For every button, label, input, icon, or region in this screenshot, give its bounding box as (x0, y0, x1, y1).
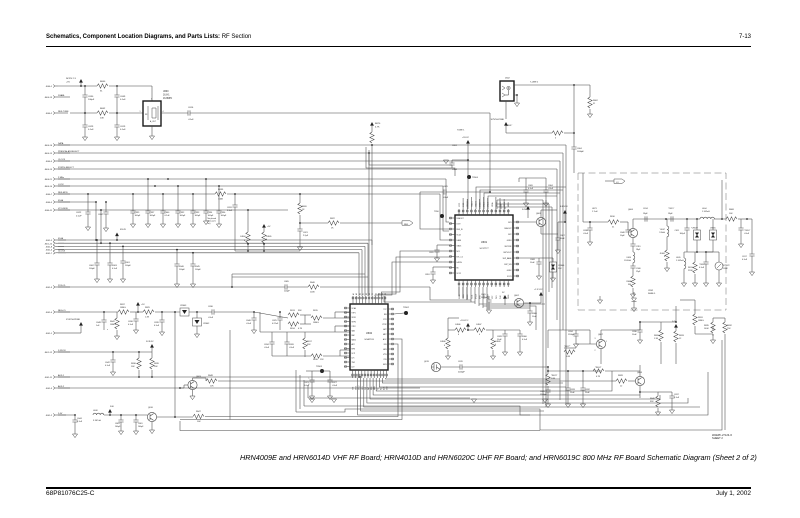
svg-text:100pF: 100pF (195, 215, 201, 217)
svg-text:100pF: 100pF (138, 426, 144, 428)
svg-text:+5V: +5V (141, 304, 145, 306)
svg-text:C626: C626 (289, 344, 295, 346)
svg-text:CTR2: CTR2 (382, 324, 386, 326)
ground under C628 (504, 336, 506, 352)
capacitor C646 100pF (176, 250, 178, 264)
wire bottom outer line (180, 421, 540, 431)
svg-text:TP60: TP60 (434, 211, 440, 213)
svg-text:C608: C608 (530, 259, 536, 261)
svg-text:CR02: CR02 (648, 290, 654, 292)
svg-text:R648: R648 (208, 375, 214, 377)
wire VCO-MOD bus (58, 209, 288, 211)
svg-text:J600-15: J600-15 (44, 153, 52, 155)
svg-text:R642: R642 (100, 108, 106, 110)
wire L604 to R608 (714, 218, 726, 220)
wire long loop E (304, 372, 708, 415)
wire REF-TUNE to R642 (70, 112, 97, 114)
ground under C646 (176, 266, 178, 284)
capacitor C625 0.22uF (279, 312, 281, 318)
svg-text:1500pF: 1500pF (540, 394, 548, 396)
ground under CR602 (196, 326, 198, 334)
svg-text:T-LINE 2: T-LINE 2 (530, 82, 539, 84)
wire divider node (694, 326, 696, 334)
svg-text:R615: R615 (313, 310, 319, 312)
svg-text:5.6V: 5.6V (522, 209, 527, 211)
svg-text:1000pF: 1000pF (577, 151, 585, 153)
capacitor C667 100pF (105, 202, 107, 212)
resistor R617 33K vertical (304, 332, 306, 338)
wire REF-MOD into U601 (440, 194, 449, 240)
svg-text:18pF: 18pF (636, 249, 641, 251)
svg-text:C634: C634 (568, 331, 574, 333)
wire DATA bus 2 (58, 249, 362, 251)
svg-text:0: 0 (555, 138, 557, 140)
capacitor C660 0.1uF (519, 330, 521, 334)
wire right bus verticals down (565, 145, 567, 404)
svg-text:C614: C614 (643, 208, 649, 210)
svg-text:list): list) (208, 222, 211, 225)
svg-text:C630: C630 (88, 96, 94, 98)
svg-text:R609: R609 (626, 281, 631, 283)
U602 bottom pin stubs (352, 370, 354, 378)
svg-text:1.3K: 1.3K (654, 338, 659, 340)
svg-text:C634: C634 (264, 344, 270, 346)
wire C627 top (322, 370, 330, 372)
svg-text:Q602: Q602 (514, 295, 520, 297)
svg-text:1000pF: 1000pF (481, 297, 489, 299)
svg-text:.01uF: .01uF (443, 197, 449, 199)
svg-text:.01uF: .01uF (332, 385, 338, 387)
svg-text:GND4: GND4 (480, 202, 482, 207)
svg-text:C319: C319 (636, 246, 641, 248)
svg-text:JU606: JU606 (455, 324, 460, 326)
svg-text:12: 12 (679, 338, 682, 340)
capacitor C620 at U601 left (436, 245, 438, 250)
wire R635 onward (227, 193, 440, 195)
wire Q603 base (519, 221, 536, 223)
svg-text:R616: R616 (313, 359, 319, 361)
wire R646 onward (320, 286, 430, 288)
svg-text:C603: C603 (112, 265, 118, 267)
svg-text:1.162uH: 1.162uH (676, 260, 684, 262)
capacitor C634b 1500pF (575, 330, 577, 334)
svg-text:REF_IN: REF_IN (457, 229, 464, 231)
svg-text:NC2: NC2 (508, 234, 511, 236)
svg-text:XTAL1: XTAL1 (483, 202, 486, 207)
svg-text:"C612": "C612" (699, 264, 705, 266)
wire CR603 to CR602 (189, 311, 212, 313)
wire bus drop 2 (368, 153, 370, 296)
wire network row (260, 331, 305, 333)
svg-text:SUPVOUT: SUPVOUT (503, 252, 511, 254)
svg-text:0: 0 (495, 344, 496, 346)
svg-text:0: 0 (664, 256, 665, 258)
svg-text:C611: C611 (675, 230, 679, 232)
svg-text:C617: C617 (742, 256, 748, 258)
wire POS-CL bus (58, 286, 285, 288)
svg-text:J600-5: J600-5 (46, 202, 53, 204)
svg-text:2 MHz: 2 MHz (58, 177, 64, 179)
svg-text:J600-7: J600-7 (46, 194, 53, 196)
svg-text:PHI2: PHI2 (500, 295, 502, 299)
svg-text:DATA: DATA (58, 142, 64, 145)
svg-text:J602: J602 (505, 78, 511, 80)
svg-text:C622: C622 (76, 212, 82, 214)
capacitor C642 0.1uF (112, 352, 114, 360)
svg-text:0.1uF: 0.1uF (88, 129, 94, 131)
svg-text:C637: C637 (674, 394, 680, 396)
ground at loop mid (471, 399, 476, 403)
ground under C632 (582, 390, 584, 404)
svg-text:+5VCC: +5VCC (462, 137, 470, 139)
capacitor C664 .01uF (545, 178, 547, 190)
svg-text:RX: RX (380, 387, 382, 390)
wire U600 output to C616 (161, 112, 188, 114)
svg-text:0.1uF: 0.1uF (154, 325, 160, 327)
svg-text:0.1uF: 0.1uF (128, 324, 134, 326)
svg-text:C606: C606 (532, 313, 538, 315)
svg-text:VCLK: VCLK (457, 235, 462, 237)
wire long loop C outer (296, 340, 722, 430)
capacitor C630b 10uF (639, 322, 641, 330)
svg-text:J601-11: J601-11 (45, 377, 53, 379)
power +5V at jumpers (262, 224, 266, 228)
svg-text:J601-8: J601-8 (46, 247, 53, 249)
svg-text:1uF: 1uF (96, 325, 100, 327)
svg-text:J601-2: J601-2 (46, 415, 53, 417)
wire PRESCALAR bus 2 (58, 245, 365, 247)
svg-text:C633: C633 (570, 389, 576, 391)
resistor R622 1K (300, 222, 328, 224)
svg-text:+2V-VCC: +2V-VCC (460, 320, 469, 322)
wire 5.6V line (58, 414, 75, 416)
wire long loop F (308, 397, 470, 399)
resistor R626 1.3K vertical (660, 322, 662, 330)
svg-text:VCA0: VCA0 (352, 307, 356, 310)
wire LOCK bus (58, 185, 443, 187)
capacitor C618 at U601 left (432, 267, 434, 272)
svg-text:0: 0 (266, 239, 267, 241)
svg-text:PREB: PREB (508, 295, 510, 299)
svg-text:R640: R640 (100, 81, 106, 83)
svg-text:R642: R642 (110, 321, 116, 323)
svg-text:1.162uH: 1.162uH (624, 260, 632, 262)
svg-text:C660: C660 (522, 336, 528, 338)
ground under R732/2 (718, 270, 720, 283)
svg-text:C646: C646 (246, 320, 252, 322)
wire VCO-MOD link down (100, 210, 102, 243)
wire C670 to node (462, 366, 548, 368)
resistor R609 390 (632, 268, 634, 276)
svg-text:TP602: TP602 (403, 307, 410, 309)
capacitor C626 .01uF (286, 332, 288, 342)
decoupling capacitor C334 not placed (205, 179, 207, 211)
svg-text:C604: C604 (577, 148, 583, 150)
svg-text:R602: R602 (593, 100, 599, 102)
ground under C616b (740, 230, 742, 244)
MOSFET Q611 (431, 362, 440, 371)
ground under C602 (96, 265, 98, 279)
svg-text:10K: 10K (154, 366, 158, 368)
capacitor C604 1000pF (571, 147, 576, 149)
ground at J602 (516, 95, 518, 99)
wire Q602 emitter (524, 302, 541, 304)
decoupling capacitor C337 (147, 179, 149, 211)
svg-text:C2: C2 (375, 293, 377, 295)
resistor R616 12K (311, 354, 322, 358)
ground under C661 (135, 422, 137, 431)
capacitor C621 2.2pF (297, 229, 302, 231)
capacitor C644 0.1uF (74, 415, 76, 420)
svg-text:DATA: DATA (457, 239, 462, 242)
svg-text:C601: C601 (125, 262, 131, 264)
ground under R635b (712, 334, 714, 340)
signal flag LO (614, 179, 625, 183)
capacitor C646 .01uF (253, 312, 255, 318)
svg-text:10uF: 10uF (632, 334, 637, 336)
capacitor C601 100pF (122, 246, 124, 261)
svg-text:J601-1: J601-1 (46, 333, 53, 335)
wire Q606 collector up (632, 219, 634, 228)
svg-text:JU604: JU604 (240, 236, 245, 238)
wire T-LINE2 down to R602 (589, 85, 591, 97)
capacitor C649 0.1uF (116, 86, 118, 95)
svg-text:0.1uF: 0.1uF (165, 215, 171, 217)
ground under JU608 (447, 350, 449, 356)
svg-text:10K: 10K (210, 386, 214, 388)
svg-text:R631: R631 (698, 317, 704, 319)
wire Q610 emitter down (151, 422, 153, 430)
wire Q607 emitter (600, 349, 602, 364)
svg-text:100pF: 100pF (88, 99, 95, 101)
decoupling capacitor row C339 (132, 194, 134, 211)
ground under CR602b (633, 302, 635, 308)
svg-text:1MEG: 1MEG (313, 322, 319, 324)
svg-text:C646: C646 (179, 266, 185, 268)
ground under C623 (311, 382, 313, 396)
svg-text:1MEG: 1MEG (110, 324, 116, 326)
wire C631 down (234, 207, 236, 251)
svg-text:REF-MOD: REF-MOD (58, 192, 68, 194)
svg-text:.01uF: .01uF (208, 317, 214, 319)
svg-text:PRESC: PRESC (500, 201, 502, 207)
wire to Q607 (548, 329, 576, 331)
svg-text:5rW: 5rW (110, 406, 114, 408)
wire U601 left pins to U602 top pins (381, 251, 449, 296)
capacitor C670 2000pF series (441, 366, 460, 368)
svg-text:GND2: GND2 (507, 270, 512, 272)
wire 5.FR-5V line (58, 351, 152, 353)
svg-text:C648: C648 (96, 322, 102, 324)
svg-text:C632: C632 (585, 389, 591, 391)
svg-text:NEG-CL: NEG-CL (58, 310, 67, 312)
svg-text:J601-6: J601-6 (46, 250, 53, 252)
wire C630 to REF-TUNE line (84, 97, 86, 113)
svg-text:VMULT2: VMULT2 (475, 201, 477, 207)
resistor R611 220K (694, 252, 696, 262)
ground under C664 (545, 192, 547, 203)
svg-text:100K: 100K (723, 268, 728, 270)
wire long horizontals to U602 bundle (232, 273, 365, 275)
svg-text:0: 0 (458, 334, 459, 336)
svg-text:10uF: 10uF (532, 316, 537, 318)
svg-text:10uF: 10uF (570, 392, 575, 394)
svg-text:R636: R636 (131, 363, 137, 365)
U601 top pin stubs (458, 209, 460, 215)
wire REF-MOD bus to R635 (58, 193, 215, 195)
wire VCO resonator line (633, 218, 700, 220)
wire jumper bottom rail (235, 250, 300, 252)
svg-text:16.8-1: 16.8-1 (163, 95, 170, 97)
capacitor C637 0.1uF (658, 391, 672, 393)
ground under JU609 (492, 350, 494, 356)
wire U601 bottom pins to jumper cluster (458, 287, 460, 296)
capacitor C617 0.1uF (749, 254, 754, 256)
capacitor C608 10uF (538, 258, 540, 262)
wire R616 to U602 (323, 355, 350, 357)
wire R628 to Q608 (628, 380, 635, 382)
wire left loop verticals (229, 330, 231, 420)
capacitor C641 10pF (625, 230, 630, 232)
svg-text:CLOCK: CLOCK (58, 159, 66, 161)
svg-text:R637: R637 (120, 304, 126, 306)
resistor R635b 140K (712, 326, 714, 330)
svg-text:C337: C337 (150, 212, 156, 214)
svg-text:4.7K: 4.7K (375, 127, 380, 129)
svg-text:.01uF: .01uF (744, 233, 750, 235)
wire +5VCC down to U601 (467, 160, 469, 209)
svg-text:10pF: 10pF (620, 235, 625, 237)
svg-text:PAC: PAC (352, 334, 356, 337)
header title (46, 34, 251, 40)
svg-text:1.8K: 1.8K (551, 378, 556, 380)
wire jumper row (448, 329, 455, 331)
svg-text:C630: C630 (632, 331, 638, 333)
svg-text:+2.9 VCC: +2.9 VCC (534, 289, 543, 291)
svg-text:VAG: VAG (352, 330, 356, 333)
svg-text:LO: LO (616, 182, 619, 184)
svg-text:PREIN: PREIN (496, 201, 498, 207)
svg-text:B.FR-5V: B.FR-5V (560, 206, 568, 208)
resistor R642 1MEG vertical (116, 312, 118, 318)
wire C649 to REF-TUNE line (116, 97, 118, 113)
svg-text:VMULT1: VMULT1 (471, 201, 473, 207)
svg-text:C640: C640 (165, 212, 171, 214)
svg-text:U671: U671 (592, 208, 598, 210)
svg-text:JU608: JU608 (440, 341, 445, 343)
svg-text:10K: 10K (197, 421, 201, 423)
wire PRESCALAR-SELECT bus (58, 152, 563, 154)
ground under C637 (671, 398, 673, 410)
svg-text:10uF: 10uF (560, 238, 565, 240)
svg-text:10uF: 10uF (530, 262, 535, 264)
svg-text:C625: C625 (272, 320, 278, 322)
svg-text:+5V: +5V (267, 226, 271, 228)
svg-text:5.FR-5V: 5.FR-5V (58, 350, 66, 352)
capacitor C648 1uF (103, 312, 105, 320)
svg-text:GND6: GND6 (459, 294, 461, 299)
wire 2MHz bus (58, 178, 446, 180)
svg-text:C629: C629 (88, 126, 94, 128)
svg-text:C607: C607 (560, 235, 566, 237)
svg-text:.01uF: .01uF (188, 119, 194, 121)
svg-text:0.1uF: 0.1uF (120, 99, 126, 101)
svg-text:Q670: Q670 (424, 361, 430, 363)
svg-text:1.3K: 1.3K (145, 317, 150, 319)
svg-text:0.1uF: 0.1uF (742, 259, 748, 261)
svg-text:100pF: 100pF (180, 215, 186, 217)
wire center-left vertical pair (295, 370, 297, 412)
svg-text:R628: R628 (618, 375, 624, 377)
svg-text:.01uF: .01uF (264, 347, 270, 349)
svg-text:C616: C616 (188, 107, 194, 109)
svg-text:VCC1: VCC1 (459, 203, 461, 207)
svg-text:0.22uF: 0.22uF (272, 323, 279, 325)
wire varactor bottoms (696, 240, 698, 252)
svg-text:12pF: 12pF (636, 271, 641, 273)
svg-text:C645: C645 (195, 266, 201, 268)
wire Q608 collector (639, 370, 641, 376)
capacitor C627 .01uF (329, 371, 331, 380)
testpoint TP603 at U601 (440, 214, 444, 218)
svg-text:33K: 33K (307, 344, 311, 346)
ground under CR606 (552, 272, 554, 278)
svg-text:SYNTH-PDBK: SYNTH-PDBK (491, 119, 505, 121)
capacitor C612 0.1uF (705, 252, 707, 262)
ground under C621 (299, 231, 301, 247)
svg-text:0.1uF: 0.1uF (77, 421, 83, 423)
svg-text:JU601: JU601 (660, 253, 665, 255)
wire CLOCK bus 2 (58, 252, 359, 254)
jumper JU601 0 (666, 237, 668, 250)
svg-text:C623: C623 (304, 382, 310, 384)
capacitor C628 10uF (504, 330, 506, 334)
svg-text:C636: C636 (208, 306, 214, 308)
wire U601 bottom fan to lower bus (458, 287, 460, 296)
svg-text:10uF: 10uF (585, 392, 590, 394)
svg-text:100pF: 100pF (115, 426, 121, 428)
wire filter outputs to U602 pins (305, 331, 350, 333)
svg-text:C661: C661 (138, 423, 143, 425)
svg-text:C340: C340 (636, 268, 641, 270)
svg-text:VCC3: VCC3 (507, 276, 512, 278)
inductor L600 120nH (666, 219, 668, 226)
svg-text:J600-21: J600-21 (44, 179, 52, 181)
wire LO stub (605, 180, 614, 182)
capacitor C639 0.1uF (155, 311, 180, 313)
jumper JU604 0 (247, 210, 249, 232)
svg-text:"JU601": "JU601" (505, 125, 512, 127)
svg-text:0.1uF: 0.1uF (105, 365, 111, 367)
wire long loop B (230, 339, 402, 420)
ground under C619 (116, 127, 118, 137)
svg-text:VCC2: VCC2 (457, 273, 462, 275)
svg-text:C640: C640 (620, 232, 626, 234)
wire divider bottoms (660, 342, 662, 364)
svg-text:1K: 1K (302, 209, 305, 211)
svg-text:A1: A1 (352, 293, 355, 295)
svg-text:C621: C621 (303, 232, 309, 234)
wire Q607 base (576, 343, 596, 345)
ground under C627 (329, 382, 331, 396)
ground under C603 (109, 265, 111, 279)
wire U601 top pins to right bus (476, 187, 566, 209)
svg-text:2000pF: 2000pF (458, 372, 466, 374)
ground under R602 (589, 109, 591, 114)
svg-text:0.1uF: 0.1uF (76, 216, 82, 218)
svg-text:C639: C639 (154, 322, 160, 324)
wire CLOCK bus (58, 160, 560, 162)
